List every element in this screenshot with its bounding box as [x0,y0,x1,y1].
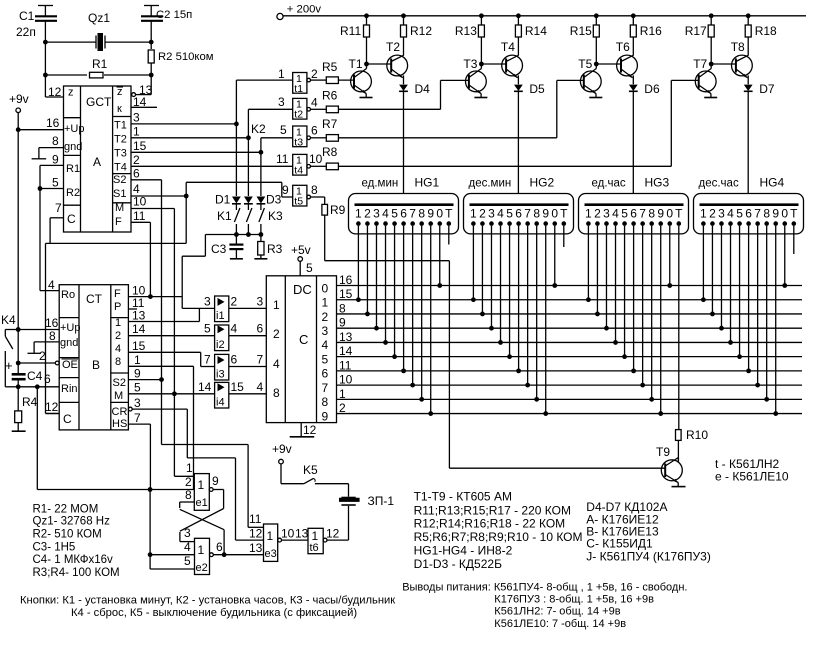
wire S1 pin 4 [131,182,189,198]
label t2 pins [311,96,318,110]
buffer i4 pin labels [198,380,264,394]
svg-text:R12: R12 [410,24,432,38]
svg-text:Кнопки: К1 - установка минут,: Кнопки: К1 - установка минут, К2 - устан… [20,595,395,607]
svg-text:R15: R15 [570,24,592,38]
svg-text:2: 2 [479,207,486,221]
svg-text:C3- 1Н5: C3- 1Н5 [33,542,76,554]
wire R7 to T5 base [338,80,584,137]
svg-text:8: 8 [418,207,425,221]
svg-text:13: 13 [132,309,146,323]
svg-text:12: 12 [45,400,59,414]
svg-text:6: 6 [515,207,522,221]
svg-text:3: 3 [488,207,495,221]
svg-text:10: 10 [281,527,295,541]
svg-text:D1: D1 [215,193,231,207]
svg-text:R8: R8 [322,145,338,159]
svg-text:2: 2 [322,310,329,324]
svg-text:R11: R11 [340,24,361,38]
node [43,40,48,45]
svg-text:5: 5 [134,381,141,395]
wire HG4 pin T stub [793,226,795,254]
wire HG3 pin 4 to bus [613,226,618,345]
svg-text:T5: T5 [578,57,592,71]
parts list middle [414,490,583,572]
svg-text:C1: C1 [19,9,35,23]
diode D3 [257,152,282,206]
svg-text:R5;R6;R7;R8;R9;R10 - 10 КОМ: R5;R6;R7;R8;R9;R10 - 10 КОМ [414,530,583,544]
svg-text:C4: C4 [27,369,43,383]
transistor T4 [501,40,523,78]
node rail [401,13,406,18]
DC pin 12 ground [290,423,317,437]
wire HG4 pin 7 to bus [755,226,760,388]
svg-text:3: 3 [133,111,140,125]
svg-text:e1: e1 [196,497,208,509]
wire T2 pin 1 [131,125,251,141]
terminal +5v [291,243,313,276]
svg-text:R1: R1 [66,163,80,175]
svg-text:9: 9 [282,183,289,197]
svg-text:2: 2 [185,475,192,489]
svg-text:GCT: GCT [86,95,112,109]
svg-text:5: 5 [322,352,329,366]
wire HG2 pin 3 to bus [489,226,494,331]
node collector [479,62,484,67]
svg-text:C: C [63,412,72,426]
svg-text:C4- 1 МКФх16v: C4- 1 МКФх16v [33,554,113,566]
gate e3 [264,524,282,561]
resistor R11 [340,16,370,64]
wire HG4 pin 1 to bus [701,226,706,302]
wire B pin 10 F [128,284,182,300]
switch K5 [281,463,349,484]
node rail [594,13,599,18]
wire i3 output to DC [229,366,266,368]
gate e2 [195,538,214,574]
svg-text:7: 7 [754,207,761,221]
svg-text:+Up: +Up [64,123,85,135]
display HG3 box [579,194,689,234]
svg-text:D7: D7 [759,82,775,96]
wire T4 pin 2 to t4 [131,153,293,167]
pin 8 gnd wire [28,329,60,353]
resistor R10 [676,428,709,462]
svg-text:8: 8 [52,134,59,148]
inverter t1 [293,73,311,95]
svg-text:7: 7 [409,207,416,221]
node rail [709,13,714,18]
svg-text:12: 12 [249,527,263,541]
wire HG3 pin 9 to bus [658,226,663,416]
wire HG1 pin 1 to bus [356,226,361,302]
svg-text:F: F [114,288,121,300]
IC DC C К155ИД1 [266,276,336,423]
svg-text:T9: T9 [656,445,670,459]
svg-text:К561ЛЕ10: 7 -общ. 14 +9в: К561ЛЕ10: 7 -общ. 14 +9в [494,618,626,630]
svg-text:12: 12 [303,423,317,437]
svg-text:16: 16 [45,316,59,330]
svg-text:1: 1 [322,296,329,310]
wire DC output 4 bus [337,330,803,344]
wire clock line A.C B.C [46,243,187,413]
wire DC output 1 bus [337,287,803,301]
terminal +9v [9,92,29,113]
svg-text:R2 510ком: R2 510ком [158,51,214,63]
svg-text:к: к [117,103,122,115]
wire R6 to T3 base [338,80,469,109]
wire DC output 9 bus [337,401,803,415]
transistor T4 base wire [481,63,506,65]
wire HG2 pin 9 to bus [543,226,548,416]
svg-text:t5: t5 [294,196,303,208]
svg-text:6: 6 [44,372,51,386]
wire B pin M to i4 [128,393,214,395]
svg-text:1: 1 [273,298,280,312]
svg-text:9: 9 [52,153,59,167]
svg-text:1: 1 [700,207,707,221]
svg-text:2: 2 [115,330,121,342]
svg-text:R13: R13 [455,24,477,38]
svg-text:K2: K2 [251,122,266,136]
display HG1 box [349,194,459,234]
svg-text:R16: R16 [640,24,662,38]
svg-text:9: 9 [657,207,664,221]
svg-text:T1-T9 - КТ605 АМ: T1-T9 - КТ605 АМ [414,490,512,504]
svg-text:HG1: HG1 [415,176,440,190]
svg-text:0: 0 [436,207,443,221]
wire T3 pin 15 [131,139,263,155]
svg-text:R7: R7 [322,117,338,131]
svg-text:i3: i3 [216,368,225,380]
svg-text:Qz1- 32768 Hz: Qz1- 32768 Hz [33,516,111,528]
wire i1 output to DC [229,307,266,309]
buffer i4 [215,382,229,408]
svg-text:7: 7 [524,207,531,221]
svg-text:8: 8 [763,207,770,221]
svg-text:5: 5 [280,123,287,137]
transistor T2 [386,40,408,78]
svg-text:7: 7 [639,207,646,221]
svg-text:T7: T7 [693,57,707,71]
pin 4 Ro wire [40,278,59,292]
buttons note [20,595,395,620]
wire [44,42,46,75]
svg-text:D6: D6 [644,82,660,96]
label e chip [715,470,789,484]
resistor R1 [45,57,151,78]
svg-text:Ro: Ro [61,289,75,301]
diode D5 [514,75,545,204]
label K2 [251,122,266,136]
wire HG4 pin 6 to bus [746,226,751,373]
node [149,73,154,78]
svg-text:T8: T8 [731,40,745,54]
label t1 pins [311,67,318,81]
wire i1 input line [182,307,214,309]
svg-text:Rin: Rin [61,383,78,395]
svg-text:9: 9 [772,207,779,221]
svg-text:DC: DC [293,282,312,297]
svg-text:R10: R10 [686,428,708,442]
svg-text:16: 16 [46,116,60,130]
svg-text:T: T [445,207,453,221]
DC output cell labels [322,281,329,423]
display HG4 label [699,176,785,190]
svg-text:9: 9 [427,207,434,221]
svg-text:4: 4 [497,207,504,221]
svg-text:8: 8 [115,356,121,368]
svg-text:i1: i1 [216,310,225,322]
gate e1 pin labels [185,461,219,502]
buffer i2 pin labels [204,322,264,336]
svg-text:4: 4 [612,207,619,221]
inverter t5 [293,185,311,207]
svg-text:HS: HS [112,418,127,430]
inverter t4 [293,154,311,176]
node [43,73,48,78]
pin 15 label [132,339,146,353]
svg-text:4: 4 [48,278,55,292]
node M to B.M [172,391,177,396]
svg-text:6: 6 [322,367,329,381]
display HG4 box [694,194,804,234]
svg-text:t2: t2 [294,109,303,121]
label t chip [715,457,780,471]
svg-text:1: 1 [585,207,592,221]
buffer i1 [215,296,229,322]
svg-text:5: 5 [184,554,191,568]
wire pin 13 to R2 [132,75,151,97]
terminal +200v [277,4,321,20]
display HG4 pin labels and dots [700,207,798,226]
svg-text:Выводы питания: К561ПУ4- 8-общ: Выводы питания: К561ПУ4- 8-общ , 1 +5в, … [402,582,687,594]
svg-text:S2: S2 [113,377,126,389]
wire HG4 pin 3 to bus [719,226,724,331]
capacitor C1 [16,6,57,43]
svg-text:8: 8 [185,488,192,502]
buffer i3 [215,354,229,380]
svg-text:11: 11 [249,512,262,526]
svg-text:1: 1 [470,207,477,221]
svg-text:T3: T3 [114,148,127,160]
display HG3 pin labels and dots [585,207,683,226]
svg-text:2: 2 [231,294,238,308]
inverter t3 [293,126,311,148]
svg-text:gnd: gnd [60,337,78,349]
label t5 pins [282,183,318,197]
svg-text:1: 1 [198,478,205,492]
transistor T8 base wire [711,63,736,65]
wire HG2 pin 7 to bus [525,226,530,388]
wire HG1 pin T stub [448,226,450,245]
svg-text:3: 3 [603,207,610,221]
svg-text:T4: T4 [501,40,515,54]
svg-text:T: T [790,207,798,221]
wire t2 input from K2 line [248,95,292,138]
wire B pin 13 to i1 [128,308,199,321]
wire HG3 pin 7 to bus [640,226,645,388]
buffer i1 pin labels [204,294,264,308]
crystal Qz1 [45,11,151,51]
svg-text:2: 2 [133,153,140,167]
power pins note [402,582,687,631]
wire HG3 pin 2 to bus [595,226,600,317]
svg-text:1: 1 [115,317,121,329]
svg-text:9: 9 [542,207,549,221]
svg-text:1: 1 [133,125,140,139]
pin 8 gnd wire [32,134,64,159]
wire B pin 14 to i2 [128,335,214,337]
capacitor C2 [141,6,192,43]
svg-text:6: 6 [257,322,264,336]
svg-text:T2: T2 [386,40,400,54]
transistor T9 [656,445,686,487]
node [149,40,154,45]
svg-text:C2 15п: C2 15п [156,9,192,21]
wire HG2 pin T stub [563,226,565,247]
svg-text:T4: T4 [114,162,127,174]
display HG2 anode bar [470,203,569,206]
svg-text:8: 8 [311,183,318,197]
svg-text:S2: S2 [113,174,126,186]
svg-text:8: 8 [648,207,655,221]
svg-text:T3: T3 [463,57,477,71]
wire t6 output to buzzer [327,506,349,540]
wire CR to e3 pin 12 [187,458,263,540]
svg-text:e3: e3 [265,548,277,560]
transistor T5 [578,57,602,98]
switch K4 [1,313,18,387]
wire T1 pin 3 [131,111,239,127]
transistor T7 [693,57,717,98]
svg-text:R2: R2 [66,187,80,199]
svg-text:t4: t4 [294,165,303,177]
svg-text:4: 4 [184,540,191,554]
svg-text:7: 7 [204,353,211,367]
svg-text:D1-D3 - КД522Б: D1-D3 - КД522Б [414,557,502,571]
capacitor C4 [5,358,43,387]
svg-text:3: 3 [204,294,211,308]
wire i2 output to DC [229,335,266,337]
terminal +9v K5 [272,442,292,464]
wire e1 output cross [180,490,224,542]
wire HG4 pin 0 to bus [782,226,787,288]
svg-text:0: 0 [781,207,788,221]
svg-text:ЗП-1: ЗП-1 [368,494,395,508]
IC U-A GCT К176ИЕ12 [64,86,132,232]
svg-text:15: 15 [231,380,245,394]
display HG2 label [469,176,555,190]
wire DC output 2 bus [337,301,803,315]
svg-text:3: 3 [322,324,329,338]
wire e2 output [213,537,263,558]
diode D2 [244,138,253,204]
wire HG1 pin 4 to bus [383,226,388,345]
svg-text:R18: R18 [755,24,777,38]
svg-text:10: 10 [133,195,147,209]
svg-text:3: 3 [278,95,285,109]
svg-text:дес.мин: дес.мин [469,178,512,190]
wire B pin 15 to i3 [128,352,214,366]
svg-text:1: 1 [278,67,285,81]
wire HG1 pin 9 to bus [428,226,433,416]
svg-text:+9v: +9v [9,92,29,106]
svg-text:4: 4 [273,357,280,371]
svg-text:HG1-HG4 - ИН8-2: HG1-HG4 - ИН8-2 [414,544,513,558]
svg-text:1: 1 [198,543,205,557]
display HG1 pin labels and dots [355,207,453,226]
resistor R5 [311,60,355,84]
svg-text:6: 6 [216,540,223,554]
transistor T3 [463,57,487,98]
svg-text:+9v: +9v [272,442,292,456]
svg-text:10: 10 [309,152,323,166]
parts list left [33,504,120,580]
svg-text:Qz1: Qz1 [88,11,110,25]
svg-text:R4: R4 [22,395,38,409]
svg-text:2: 2 [39,349,46,363]
svg-text:8: 8 [49,329,56,343]
wire HG3 pin 8 to bus [649,226,654,402]
svg-text:4: 4 [322,338,329,352]
pin 9 R1 wire [40,153,64,291]
svg-text:HG3: HG3 [645,176,670,190]
transistor T1 [349,57,373,98]
wire pin16 +Up [18,116,63,130]
svg-text:5: 5 [306,261,313,275]
svg-text:R9: R9 [330,203,346,217]
switch K1 [217,204,240,235]
svg-text:R12;R14;R16;R18 - 22 КОМ: R12;R14;R16;R18 - 22 КОМ [414,517,566,531]
wire HG1 pin 8 to bus [419,226,424,402]
buffer i3 pin labels [204,353,264,367]
svg-text:14: 14 [198,380,212,394]
transistor T6 base wire [596,63,621,65]
gate e2 pin labels [184,526,223,568]
wire B pin 7 HS [128,411,150,490]
resistor R2 510ком [148,42,213,75]
resistor R16 [630,16,662,56]
svg-text:C3: C3 [211,242,227,256]
node rail [746,13,751,18]
diode D7 [744,75,775,204]
svg-text:1: 1 [355,207,362,221]
svg-text:7: 7 [257,353,264,367]
wire i4 output to DC [229,393,266,395]
svg-text:1: 1 [134,353,141,367]
wire HG1 pin 2 to bus [365,226,370,317]
pin 14 label [132,322,146,336]
wire HG2 pin 5 to bus [507,226,512,359]
diode D4 [399,75,430,204]
svg-text:z: z [68,87,74,99]
diode D1 [215,124,241,207]
wire HG4 pin 2 to bus [710,226,715,317]
wire HG3 pin 1 to bus [586,226,591,302]
IC U-B CT К176ИЕ13 [59,285,128,430]
wire M pin 10 [131,195,174,477]
resistor R13 [455,16,485,64]
wire e3 to t6 [282,527,309,541]
svg-text:0: 0 [322,281,329,295]
pin 6 Rin wire [16,372,59,389]
pin 13 label [132,309,146,323]
resistor R3 [254,235,282,259]
wire HG2 pin 0 to bus [552,226,557,288]
svg-text:HG4: HG4 [760,176,785,190]
wire HG1 pin 6 to bus [401,226,406,373]
svg-text:4: 4 [727,207,734,221]
